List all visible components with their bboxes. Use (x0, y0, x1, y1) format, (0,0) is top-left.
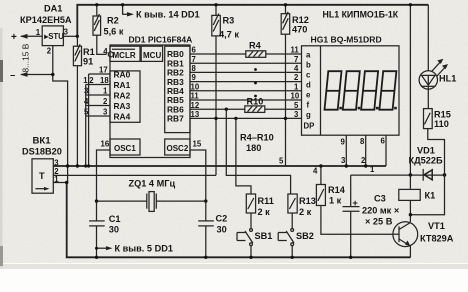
RB4 segment wire to display pin 1 (190, 82, 302, 91)
svg-text:11: 11 (191, 92, 200, 101)
svg-text:VT1: VT1 (428, 221, 445, 231)
svg-text:12: 12 (191, 101, 200, 110)
MCLR inversion bubble (108, 52, 113, 57)
R3 bottom pull-up wire down to data line (215, 36, 217, 176)
svg-text:4: 4 (294, 64, 299, 73)
svg-text:R1: R1 (83, 47, 95, 57)
RB3 segment wire to display pin 2 (190, 73, 302, 82)
svg-text:HL1: HL1 (439, 74, 456, 84)
to pin 14 DD1 stub arrow (121, 3, 200, 20)
svg-text:2: 2 (294, 73, 299, 82)
STU pin 2 wire down with jog (53, 46, 68, 166)
svg-text:9: 9 (341, 138, 346, 147)
capacitor C1 (89, 201, 120, 257)
svg-text:RA3: RA3 (114, 101, 131, 111)
svg-text:15: 15 (193, 140, 202, 149)
display common pin 8 wire (360, 135, 367, 168)
svg-text:1: 1 (103, 87, 108, 96)
resistor R10 (245, 97, 265, 113)
RB0 segment wire to display pin 11 (190, 46, 302, 55)
top +5V rail wire (77, 5, 428, 37)
RA1 wire pin 18 (83, 76, 110, 85)
display common pin 6 wire (381, 135, 387, 166)
svg-text:КТ829А: КТ829А (420, 234, 454, 244)
svg-text:d: d (306, 81, 311, 90)
R12 top lead (285, 5, 287, 14)
resistor R13 (288, 194, 316, 217)
resistor R15 (424, 109, 451, 129)
OSC2 pin 15 wire (190, 140, 206, 202)
RA ladder vertical wires (88, 74, 90, 166)
svg-text:3: 3 (64, 28, 69, 37)
relay supply wire from C3 to diode (351, 174, 445, 176)
svg-text:КД522Б: КД522Б (409, 156, 443, 166)
svg-text:2: 2 (47, 47, 52, 56)
svg-text:6: 6 (381, 137, 386, 146)
svg-text:5: 5 (294, 101, 299, 110)
svg-text:R3: R3 (223, 16, 235, 26)
svg-text:91: 91 (83, 57, 93, 67)
svg-text:10: 10 (291, 92, 300, 101)
RB6 tap wire to R13 (225, 108, 291, 195)
OSC1 pin 16 wire (97, 140, 111, 202)
svg-text:DP: DP (304, 122, 315, 131)
svg-text:b: b (306, 61, 311, 70)
svg-text:4: 4 (313, 167, 318, 176)
indicator segment letter column divider (320, 46, 322, 135)
svg-text:SB2: SB2 (296, 231, 314, 241)
svg-text:RA4: RA4 (114, 112, 131, 122)
RB6 segment wire to display pin 5 (190, 101, 302, 110)
to pin 5 DD1 arrow note (95, 243, 173, 253)
svg-text:4: 4 (103, 47, 108, 56)
svg-text:5,6 к: 5,6 к (104, 27, 124, 37)
R2 bottom lead to MCLR wire (97, 35, 107, 54)
svg-text:470: 470 (292, 25, 307, 35)
indicator HG1 box (302, 46, 400, 135)
LED HL1 (419, 5, 456, 109)
svg-text:R4: R4 (249, 40, 262, 50)
svg-text:3: 3 (103, 108, 108, 117)
resistor R4 (246, 40, 266, 57)
svg-text:3: 3 (54, 158, 59, 167)
svg-text:1: 1 (83, 76, 88, 85)
seven segment digit 3 (361, 71, 378, 110)
button SB2 (278, 213, 314, 257)
svg-text:R10: R10 (247, 97, 264, 107)
MCLR sub box (110, 46, 140, 61)
svg-text:R2: R2 (107, 16, 119, 26)
svg-text:▸STU: ▸STU (43, 32, 64, 41)
svg-text:1 к: 1 к (329, 196, 342, 206)
seven segment digit 2 (343, 71, 360, 110)
svg-text:HL1 КИПМО1Б-1К: HL1 КИПМО1Б-1К (323, 10, 399, 20)
svg-text:c: c (306, 71, 311, 80)
svg-text:5: 5 (279, 157, 284, 166)
svg-text:R14: R14 (328, 185, 346, 195)
svg-text:RA0: RA0 (114, 70, 131, 80)
svg-text:30: 30 (217, 225, 227, 235)
svg-text:16: 16 (101, 140, 110, 149)
svg-text:R4–R10: R4–R10 (240, 133, 274, 143)
svg-text:17: 17 (99, 66, 108, 75)
svg-text:e: e (306, 91, 311, 100)
svg-text:2: 2 (89, 76, 94, 85)
R1 bottom wire down to mid rail (76, 66, 78, 166)
svg-text:4,7 к: 4,7 к (219, 29, 239, 39)
middle horizontal rail wire (53, 165, 386, 167)
svg-text:8: 8 (360, 137, 365, 146)
seven segment digit 1 (325, 71, 342, 110)
svg-text:R11: R11 (258, 196, 274, 206)
RB7 tap wire to R11 (234, 117, 251, 194)
RA port sub box (110, 70, 140, 123)
svg-text:8: 8 (192, 64, 197, 73)
svg-text:R12: R12 (292, 15, 309, 25)
resistor R2 (93, 14, 124, 37)
svg-text:HG1 BQ-M51DRD: HG1 BQ-M51DRD (311, 35, 382, 45)
svg-text:1: 1 (36, 28, 41, 37)
svg-text:RB7: RB7 (167, 114, 184, 124)
node minus to pin2 (51, 73, 54, 76)
crystal ZQ1 (97, 192, 206, 212)
capacitor C2 (198, 201, 227, 257)
svg-text:2: 2 (361, 156, 366, 165)
segment letters (304, 51, 315, 131)
svg-text:MCU: MCU (143, 51, 161, 60)
relay K1 box (399, 189, 435, 200)
svg-text:11: 11 (291, 46, 300, 55)
svg-text:ВК1: ВК1 (33, 136, 52, 147)
node on mid rail (66, 164, 69, 167)
svg-text:× 25 В: × 25 В (365, 217, 393, 227)
+ input wire with arrow (11, 32, 42, 43)
R2 top lead (96, 5, 98, 16)
svg-text:MCLR: MCLR (113, 51, 136, 60)
svg-text:OSC2: OSC2 (167, 144, 189, 153)
seven segment digit 4 (379, 71, 396, 110)
node R1 mid rail (76, 164, 79, 167)
svg-text:RA2: RA2 (114, 91, 131, 101)
svg-text:6: 6 (192, 46, 197, 55)
svg-text:OSC1: OSC1 (114, 144, 136, 153)
svg-text:18: 18 (100, 76, 109, 85)
ellipsis dots between R4 and R10 (254, 68, 257, 71)
svg-text:f: f (307, 101, 310, 110)
svg-text:КР142ЕН5А: КР142ЕН5А (20, 15, 72, 25)
R14 top lead from mid rail (320, 166, 322, 185)
R1 top lead (76, 36, 78, 46)
regulator DA1 U1 box (42, 26, 64, 46)
RB2 segment wire to display pin 4 (190, 64, 302, 73)
svg-text:a: a (306, 51, 311, 60)
svg-text:3: 3 (341, 156, 346, 165)
svg-text:+: + (353, 198, 358, 208)
svg-text:+: + (11, 32, 17, 43)
resistor R14 (316, 185, 345, 206)
svg-text:10: 10 (191, 82, 200, 91)
svg-text:13: 13 (191, 110, 200, 119)
resistor R12 (281, 12, 309, 35)
svg-text:3: 3 (294, 110, 299, 119)
svg-text:g: g (306, 111, 311, 120)
microcontroller DD1 outer box (110, 45, 190, 158)
R3 top lead (215, 5, 217, 16)
svg-text:RA1: RA1 (114, 80, 131, 90)
svg-text:1: 1 (370, 165, 375, 174)
button SB1 (237, 213, 272, 257)
svg-text:DD1 PIC16F84A: DD1 PIC16F84A (129, 35, 193, 45)
RB port sub box (165, 46, 190, 132)
RB1 segment wire to display pin 7 (190, 55, 302, 64)
diode VD1 (423, 169, 432, 181)
display common pin 9 wire (341, 135, 348, 168)
BK1 pin 2 data wire (53, 174, 216, 176)
svg-text:220 мк ×: 220 мк × (362, 206, 399, 216)
svg-text:7: 7 (192, 55, 196, 64)
resistor R3 (212, 14, 240, 40)
BK1 pin 1 ground wire (53, 182, 66, 184)
RB7 segment wire to display pin 3 (190, 110, 302, 119)
svg-text:2 к: 2 к (258, 207, 271, 217)
RA4 wire pin 3 (84, 108, 110, 117)
capacitor C3 (343, 175, 400, 257)
OSC2 sub box (165, 139, 190, 155)
svg-text:8...15 В: 8...15 В (21, 43, 31, 72)
paper background (0, 0, 1, 1)
left scan edge mark (0, 28, 3, 268)
R14 bottom wire to transistor base (321, 206, 393, 235)
svg-text:C1: C1 (109, 214, 121, 224)
MCU sub box (141, 46, 162, 61)
ground vertical wire to bottom rail (67, 166, 69, 183)
svg-text:К выв. 14 DD1: К выв. 14 DD1 (136, 10, 200, 20)
RA2 wire pin 1 (84, 87, 110, 96)
svg-text:R13: R13 (299, 196, 316, 206)
bottom common rail wire (67, 183, 411, 258)
R12 bottom wire down to DP and mid rail (285, 34, 287, 166)
svg-text:К выв. 5 DD1: К выв. 5 DD1 (115, 243, 173, 253)
node at regulator output (76, 35, 79, 38)
svg-text:SB1: SB1 (255, 231, 273, 241)
svg-text:К1: К1 (425, 191, 436, 201)
STU output wire pin3 to R1 node (63, 35, 77, 37)
RA3 wire pin 2 (84, 97, 110, 106)
svg-text:1: 1 (294, 82, 299, 91)
resistor R1 (73, 44, 94, 66)
svg-text:30: 30 (109, 225, 119, 235)
transistor VT1 (393, 222, 418, 257)
svg-text:DS18B20: DS18B20 (22, 147, 62, 157)
svg-text:С2: С2 (216, 214, 228, 224)
OSC1 sub box (110, 139, 140, 155)
minus input wire with arrow (10, 71, 53, 81)
svg-text:9: 9 (192, 73, 197, 82)
svg-text:DA1: DA1 (44, 4, 62, 14)
svg-text:110: 110 (434, 119, 449, 129)
svg-text:С3: С3 (374, 194, 386, 204)
svg-text:7: 7 (294, 55, 298, 64)
sensor BK1 box (32, 159, 53, 193)
RB5 segment wire to display pin 10 (190, 92, 302, 101)
svg-text:−: − (10, 71, 15, 81)
svg-text:Т: Т (39, 171, 45, 181)
RA0 wire pin 17 (89, 66, 110, 75)
svg-text:2 к: 2 к (299, 207, 312, 217)
relay coil to collector wire (410, 175, 444, 215)
R15 bottom jog wire to diode anode (428, 129, 445, 175)
svg-text:R15: R15 (434, 110, 451, 120)
svg-text:VD1: VD1 (417, 146, 435, 156)
svg-text:ZQ1 4 МГц: ZQ1 4 МГц (129, 179, 176, 189)
svg-text:180: 180 (246, 143, 261, 153)
relay feed wire from top rail (409, 5, 411, 189)
svg-text:2: 2 (103, 97, 108, 106)
resistor R11 (246, 194, 274, 217)
